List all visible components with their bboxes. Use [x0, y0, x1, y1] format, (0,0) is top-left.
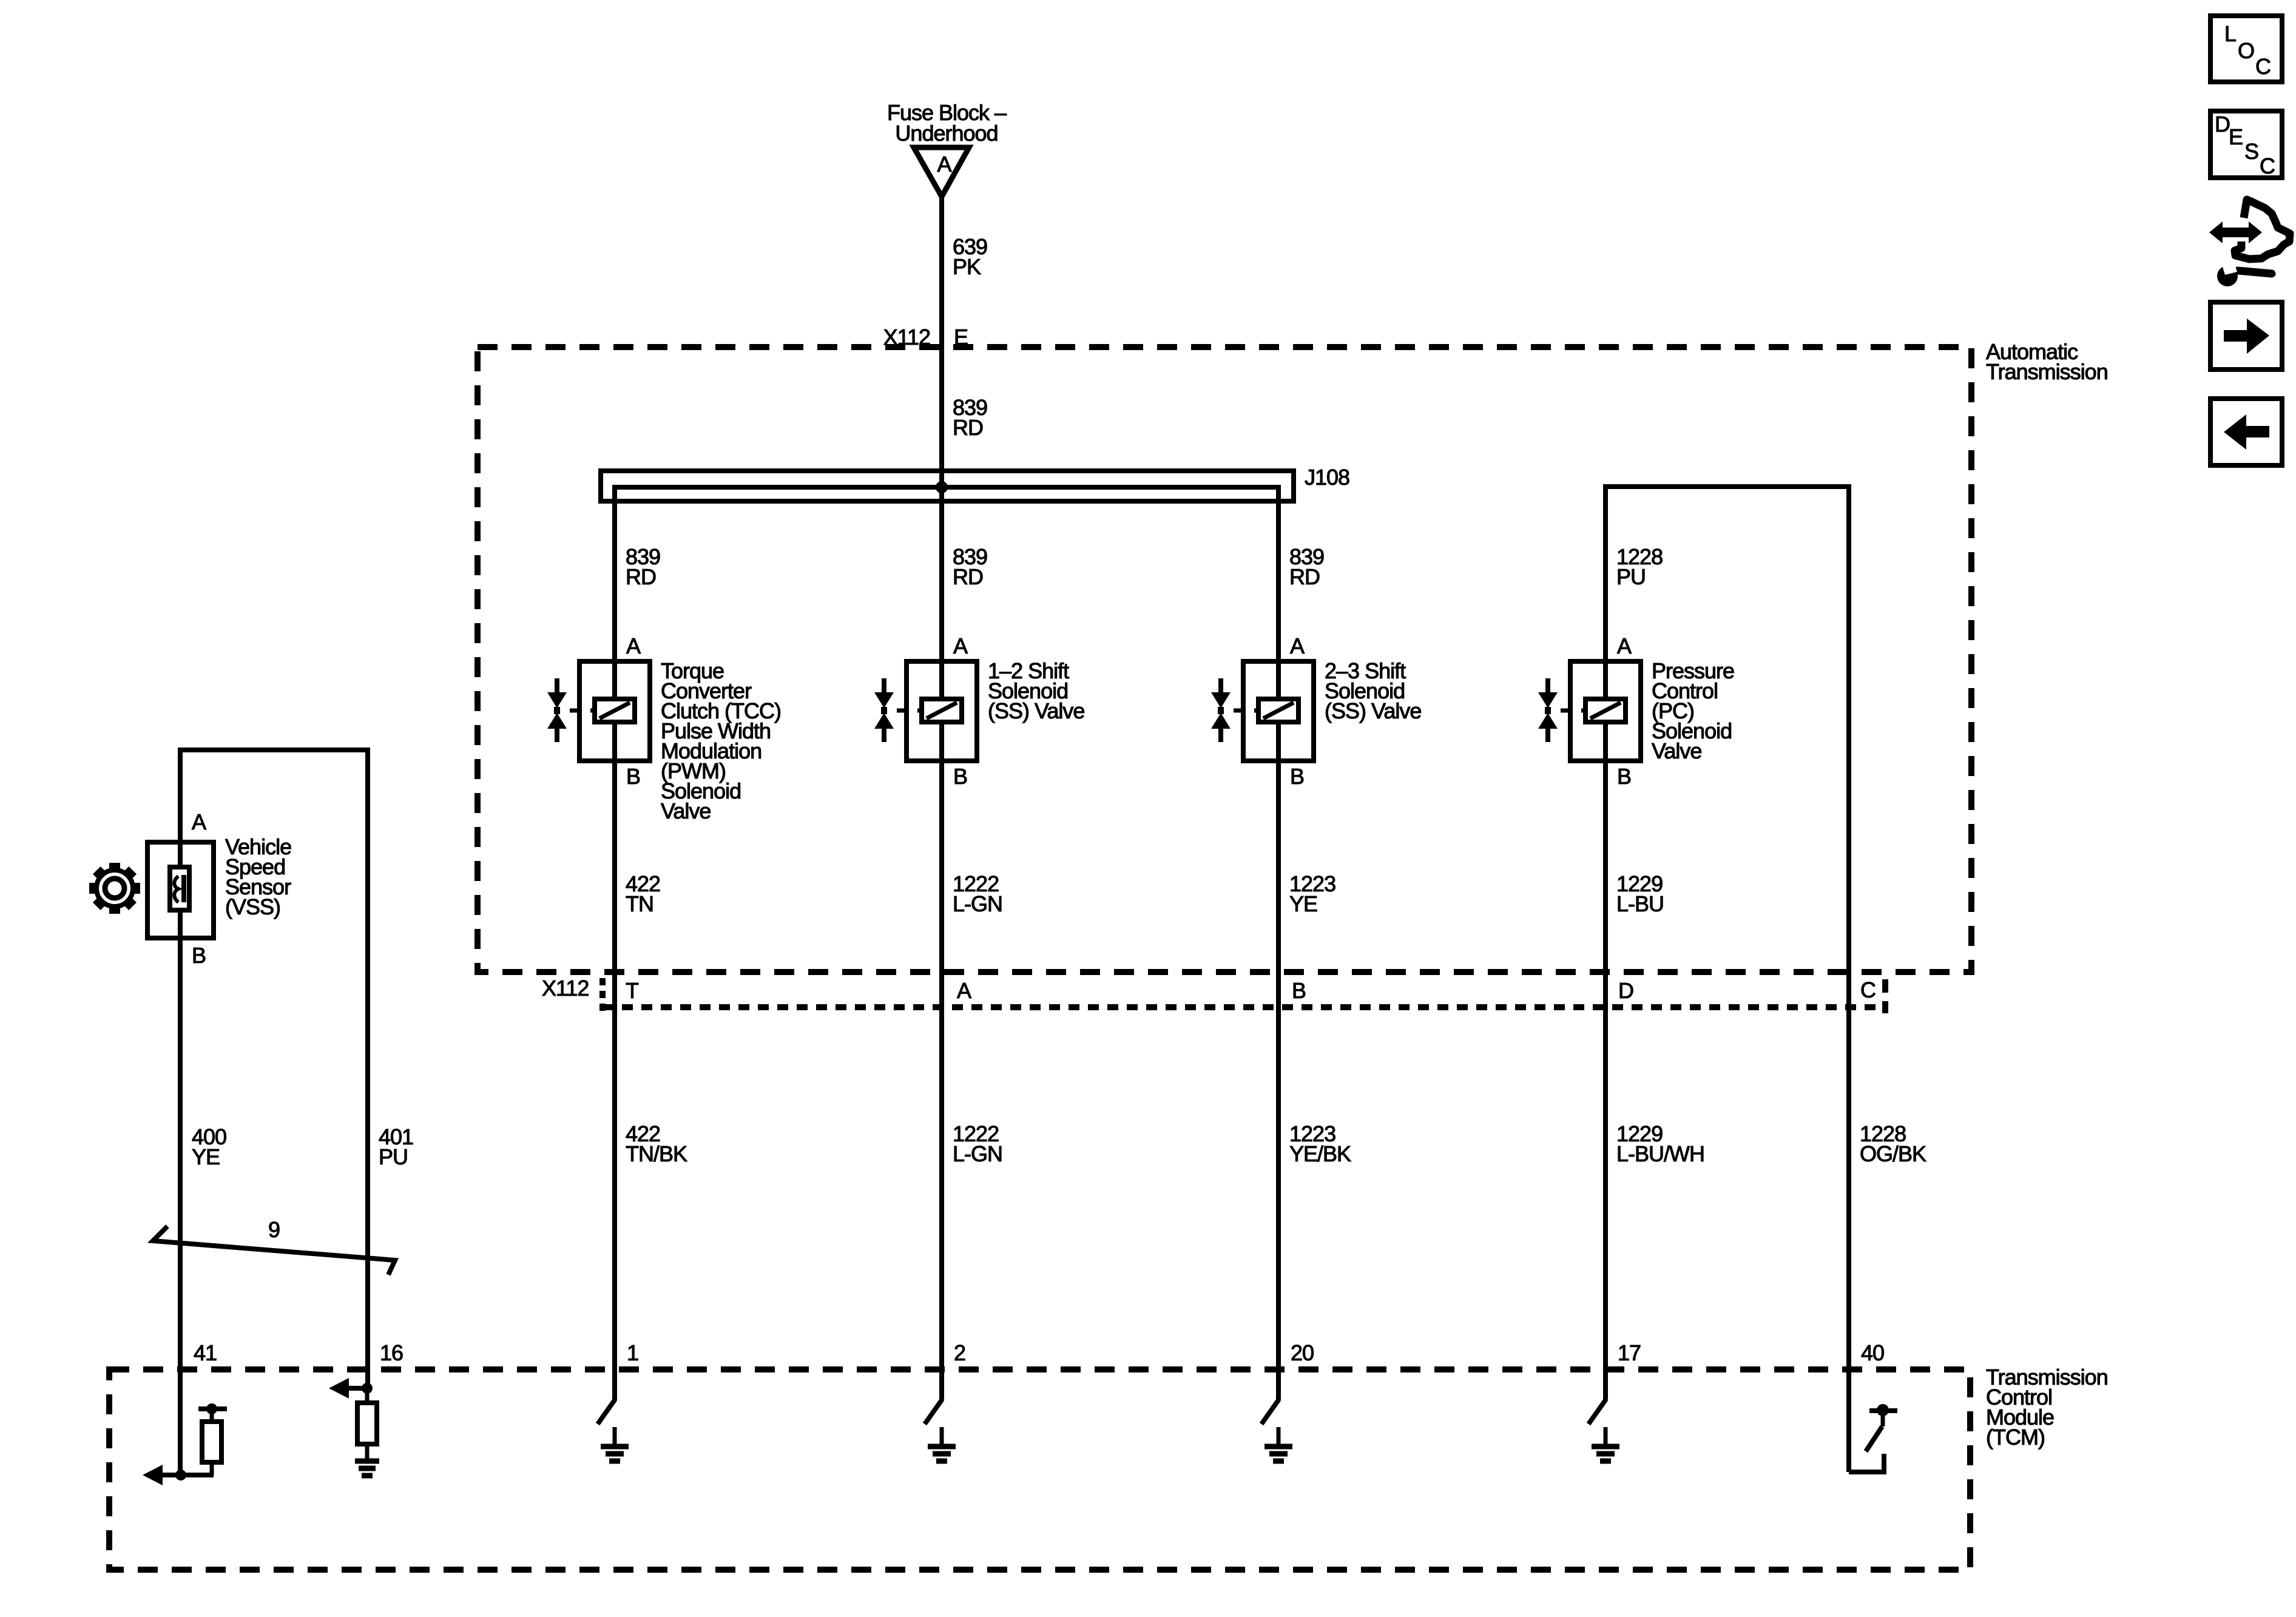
wire 1228 PU loop from pin C to PC solenoid — [1606, 487, 1849, 1472]
svg-text:16: 16 — [380, 1340, 403, 1365]
label 422 TN — [626, 871, 660, 916]
LOC legend box — [2210, 16, 2282, 82]
DESC legend box — [2210, 111, 2282, 178]
label 1222 L-GN — [953, 871, 1002, 916]
svg-text:C: C — [2255, 54, 2271, 79]
label 839 RD (TCC branch) — [626, 544, 660, 589]
label 839 RD (2-3 shift branch) — [1289, 544, 1324, 589]
VSS sensor element — [170, 867, 189, 910]
left arrow — [2224, 414, 2269, 450]
splice pack J108 inner bus bar — [615, 487, 1278, 516]
svg-text:A: A — [626, 633, 641, 658]
svg-text:(SS) Valve: (SS) Valve — [1325, 698, 1421, 723]
svg-text:RD: RD — [626, 564, 656, 589]
ground (pin 16 network) — [355, 1459, 379, 1464]
solenoid valve 1-2 shift: description label — [988, 658, 1084, 723]
label 400 YE — [192, 1124, 226, 1169]
label 422 TN/BK (TCM side) — [626, 1121, 687, 1166]
label 1228 OG/BK (TCM side) — [1860, 1121, 1926, 1166]
twisted pair symbol, circuit 9 — [153, 1217, 395, 1275]
svg-text:O: O — [2238, 38, 2254, 63]
hand-with-arrow tool icon — [2209, 200, 2290, 259]
svg-text:9: 9 — [268, 1217, 280, 1242]
svg-text:PU: PU — [1616, 564, 1646, 589]
svg-text:L-GN: L-GN — [953, 891, 1002, 916]
svg-text:B: B — [626, 764, 640, 789]
label 1228 PU — [1616, 544, 1663, 589]
svg-text:17: 17 — [1618, 1340, 1641, 1365]
svg-text:J108: J108 — [1305, 465, 1349, 490]
svg-text:Valve: Valve — [661, 798, 711, 823]
svg-text:D: D — [2215, 112, 2230, 137]
solenoid valve 1-2 shift: pin A label — [953, 633, 968, 658]
solenoid valve pressure control: pin A label — [1617, 633, 1632, 658]
label 839 RD (feed inside transmission) — [953, 395, 987, 440]
solenoid valve pressure control: valve symbol (flow arrows) — [1538, 678, 1570, 742]
TCM output driver switch (pin 1) — [598, 1399, 615, 1424]
label 639 PK — [953, 234, 987, 279]
svg-text:(TCM): (TCM) — [1986, 1425, 2045, 1450]
svg-text:YE: YE — [1289, 891, 1317, 916]
svg-text:B: B — [953, 764, 967, 789]
svg-text:L-BU: L-BU — [1616, 891, 1664, 916]
solenoid valve pressure control: body box — [1570, 661, 1641, 761]
svg-text:B: B — [192, 943, 206, 968]
right-arrow legend box — [2210, 302, 2282, 370]
connector X112 pin E labels — [883, 325, 968, 349]
Transmission Control Module dashed boundary — [109, 1369, 1970, 1570]
svg-text:T: T — [626, 978, 639, 1003]
TCM output driver switch (pin 17) — [1589, 1399, 1606, 1424]
wire 1222 L-GN from 1-2 shift solenoid pin B to TCM — [939, 761, 944, 1400]
wire 422 TN from TCC solenoid pin B to TCM — [612, 761, 617, 1400]
solenoid valve 1-2 shift: internal wire A to B — [939, 661, 944, 761]
svg-text:OG/BK: OG/BK — [1860, 1141, 1926, 1166]
junction dot on J108 feed — [936, 481, 948, 493]
left-arrow legend box — [2210, 399, 2282, 465]
TCM pin 41 input network — [143, 1403, 227, 1485]
svg-text:B: B — [1290, 764, 1304, 789]
solenoid valve pressure control: internal wire A to B — [1603, 661, 1608, 761]
solenoid valve pressure control: description label — [1652, 658, 1734, 763]
svg-text:C: C — [2260, 154, 2275, 178]
label 401 PU — [379, 1124, 413, 1169]
svg-text:(SS) Valve: (SS) Valve — [988, 698, 1084, 723]
svg-text:L: L — [2224, 21, 2236, 46]
svg-text:A: A — [192, 809, 206, 834]
solenoid valve TCC PWM: pin A label — [626, 633, 641, 658]
VSS pin A label — [192, 809, 206, 834]
svg-text:S: S — [2244, 139, 2258, 164]
LOC letters — [2224, 21, 2271, 79]
solenoid valve 2-3 shift: coil element — [1254, 699, 1298, 722]
ground (pin 1 driver) — [601, 1427, 629, 1461]
TCM pin number labels — [194, 1340, 1884, 1365]
solenoid valve 1-2 shift: coil element — [917, 699, 962, 722]
Vehicle Speed Sensor wiring loop — [180, 750, 368, 1475]
solenoid valve TCC PWM: internal wire A to B — [612, 661, 617, 761]
connector X112 strip (dotted) — [603, 978, 1885, 1013]
svg-text:A: A — [957, 978, 971, 1003]
svg-text:2: 2 — [954, 1340, 965, 1365]
svg-text:B: B — [1617, 764, 1631, 789]
svg-text:41: 41 — [194, 1340, 217, 1365]
svg-text:C: C — [1860, 977, 1876, 1002]
svg-text:Underhood: Underhood — [895, 121, 998, 146]
Automatic Transmission label — [1986, 339, 2108, 384]
TCM pressure-control driver switch (pin 40) — [1849, 1404, 1897, 1474]
ground (pin 2 driver) — [928, 1427, 956, 1461]
Vehicle Speed Sensor body box — [147, 842, 214, 938]
svg-text:A: A — [1290, 633, 1305, 658]
solenoid valve TCC PWM: pin B label — [626, 764, 640, 789]
svg-text:1: 1 — [627, 1340, 638, 1365]
svg-text:TN: TN — [626, 891, 653, 916]
splice pack J108 outer shell — [601, 471, 1294, 501]
svg-text:A: A — [937, 152, 951, 177]
ground (pin 20 driver) — [1264, 1427, 1292, 1461]
Vehicle Speed Sensor label — [225, 834, 291, 919]
svg-text:E: E — [2229, 124, 2243, 149]
solenoid valve 2-3 shift: pin A label — [1290, 633, 1305, 658]
right arrow — [2224, 319, 2269, 354]
label 1223 YE — [1289, 871, 1335, 916]
svg-text:TN/BK: TN/BK — [626, 1141, 687, 1166]
solenoid valve 2-3 shift: body box — [1243, 661, 1314, 761]
VSS internal wire — [178, 842, 183, 938]
wire 1223 YE from 2-3 shift solenoid pin B to TCM — [1276, 761, 1281, 1400]
svg-text:X112: X112 — [542, 976, 589, 1001]
label 1223 YE/BK (TCM side) — [1289, 1121, 1351, 1166]
solenoid valve 1-2 shift: valve symbol (flow arrows) — [874, 678, 907, 742]
label 839 RD (1-2 shift branch) — [953, 544, 987, 589]
label 1229 L-BU/WH (TCM side) — [1616, 1121, 1704, 1166]
svg-text:PU: PU — [379, 1144, 408, 1169]
gear wheel icon (VSS reluctor) — [89, 863, 140, 914]
svg-text:Valve: Valve — [1652, 738, 1701, 763]
solenoid valve pressure control: coil element — [1581, 699, 1626, 722]
label 1229 L-BU — [1616, 871, 1664, 916]
svg-text:PK: PK — [953, 254, 981, 279]
solenoid valve 2-3 shift: pin B label — [1290, 764, 1304, 789]
svg-text:RD: RD — [1289, 564, 1320, 589]
solenoid valve TCC PWM: coil element — [590, 699, 635, 722]
svg-text:A: A — [1617, 633, 1632, 658]
Automatic Transmission dashed boundary — [478, 347, 1971, 972]
TCM output driver switch (pin 2) — [925, 1399, 942, 1424]
solenoid valve 2-3 shift: description label — [1325, 658, 1421, 723]
TCM pin 16 input network — [329, 1378, 379, 1476]
svg-text:D: D — [1618, 978, 1633, 1003]
svg-text:B: B — [1292, 978, 1306, 1003]
label 1222 L-GN (TCM side) — [953, 1121, 1002, 1166]
ground (pin 17 driver) — [1592, 1427, 1619, 1461]
Fuse Block - Underhood label — [887, 100, 1007, 146]
svg-text:A: A — [953, 633, 968, 658]
connector pin letters T A B D C — [626, 977, 1876, 1003]
svg-text:YE: YE — [192, 1144, 220, 1169]
svg-text:Transmission: Transmission — [1986, 359, 2108, 384]
wire 839 RD to 1-2 shift solenoid — [939, 487, 944, 661]
VSS pin B label — [192, 943, 206, 968]
solenoid valve 1-2 shift: pin B label — [953, 764, 967, 789]
wire 839 RD to 2-3 shift solenoid — [1276, 487, 1281, 661]
svg-text:L-BU/WH: L-BU/WH — [1616, 1141, 1704, 1166]
svg-text:20: 20 — [1291, 1340, 1314, 1365]
solenoid valve 1-2 shift: body box — [907, 661, 977, 761]
svg-text:L-GN: L-GN — [953, 1141, 1002, 1166]
solenoid valve TCC PWM: description label — [661, 658, 781, 823]
svg-text:RD: RD — [953, 564, 983, 589]
wire 639 PK from fuse block to X112 — [939, 197, 944, 487]
solenoid valve 2-3 shift: internal wire A to B — [1276, 661, 1281, 761]
svg-text:RD: RD — [953, 415, 983, 440]
solenoid valve TCC PWM: body box — [579, 661, 650, 761]
wire 839 RD to TCC solenoid — [612, 487, 617, 661]
solenoid valve 2-3 shift: valve symbol (flow arrows) — [1211, 678, 1243, 742]
svg-text:(VSS): (VSS) — [225, 894, 280, 919]
DESC letters — [2215, 112, 2275, 178]
TCM output driver switch (pin 20) — [1261, 1399, 1279, 1424]
connector triangle A (fuse block) — [914, 147, 969, 197]
wire 1229 L-BU from PC solenoid pin B to TCM — [1603, 761, 1608, 1400]
svg-text:YE/BK: YE/BK — [1289, 1141, 1351, 1166]
Transmission Control Module label — [1986, 1365, 2108, 1450]
solenoid valve TCC PWM: valve symbol (flow arrows) — [547, 678, 579, 742]
wrench icon — [2217, 259, 2272, 286]
solenoid valve pressure control: pin B label — [1617, 764, 1631, 789]
svg-text:40: 40 — [1861, 1340, 1884, 1365]
